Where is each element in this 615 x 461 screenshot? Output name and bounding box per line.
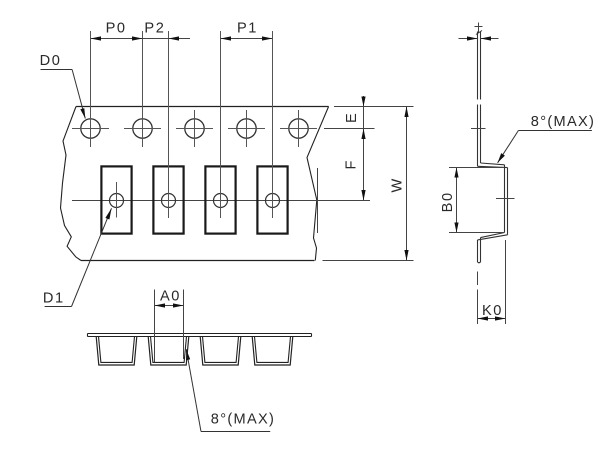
F bottom arrow (pointing down) (361, 190, 365, 201)
partial pocket 5 crosshair at torn edge (317, 168, 319, 233)
dimension P1 line (221, 38, 273, 40)
P1 right arrow (262, 36, 273, 40)
svg-text:F: F (344, 159, 360, 170)
dimension W vertical line (406, 107, 408, 261)
bottom flange (478, 233, 508, 240)
dimension A0 (155, 288, 184, 362)
svg-text:P1: P1 (237, 21, 258, 37)
W bottom arrow (404, 250, 408, 261)
svg-text:K0: K0 (482, 303, 503, 319)
dimension K0 (478, 240, 506, 324)
pocket 2 rect (153, 166, 183, 233)
svg-text:D1: D1 (43, 291, 65, 307)
tape bottom edge (81, 260, 315, 262)
sprocket hole 2 (124, 31, 161, 147)
section pocket 2 (148, 337, 189, 366)
svg-text:E: E (344, 112, 360, 123)
E bottom / F top arrow (pointing up) (361, 129, 365, 140)
sprocket hole 1 (72, 31, 109, 147)
svg-text:B0: B0 (440, 191, 456, 212)
thickness dimension arrows (459, 36, 499, 40)
pocket row center line (72, 200, 370, 202)
svg-text:P0: P0 (106, 21, 127, 37)
tape wall top (above break) (476, 31, 482, 100)
P0 left arrow (91, 36, 102, 40)
E top arrow (outside, pointing down) (361, 97, 365, 107)
pocket 1 rect (101, 166, 131, 233)
dimension P0/P2 line (91, 38, 191, 40)
bottom edge extension line (323, 260, 414, 262)
svg-text:P2: P2 (144, 21, 165, 37)
pocket wall (505, 165, 508, 235)
svg-text:D0: D0 (40, 53, 62, 69)
svg-text:W: W (390, 177, 406, 192)
bar left cap (87, 334, 89, 337)
left torn edge (61, 107, 82, 261)
section pocket 4 (252, 337, 293, 366)
svg-text:8°(MAX): 8°(MAX) (211, 412, 275, 428)
tape wall bottom (478, 238, 481, 263)
bar right cap (311, 334, 313, 337)
svg-text:A0: A0 (160, 288, 181, 304)
tape bar top line (88, 333, 312, 335)
pocket 2 center ext line (168, 31, 170, 218)
label 8 deg MAX (bottom) (186, 349, 275, 431)
sprocket hole 4 (228, 110, 265, 147)
dimension B0 (440, 168, 504, 233)
tape top edge (76, 106, 329, 108)
pocket 3 center ext line (220, 31, 222, 218)
tape bar bottom line (88, 336, 312, 338)
label 8 deg MAX (right) (498, 114, 596, 163)
section pocket 1 (96, 337, 137, 366)
sprocket level tick (471, 128, 486, 130)
section pocket 3 (200, 337, 241, 366)
P1 left arrow (221, 36, 232, 40)
svg-text:8°(MAX): 8°(MAX) (531, 114, 595, 130)
sprocket hole 5 (280, 110, 317, 147)
pocket 4 rect (257, 166, 287, 233)
dimension E/F vertical line (363, 96, 365, 201)
W top arrow (404, 107, 408, 118)
P0 right arrow (132, 36, 143, 40)
pocket 3 rect (205, 166, 235, 233)
sprocket level extension line (324, 128, 375, 130)
sprocket hole 3 (176, 110, 213, 147)
P2 right arrow (169, 36, 180, 40)
top centerline cross (475, 23, 483, 34)
top flange (478, 163, 508, 168)
pocket center tick (496, 198, 515, 200)
tape wall below break (478, 105, 481, 167)
pocket 4 center ext line (272, 31, 274, 218)
right torn edge (307, 107, 329, 261)
top edge extension line (334, 106, 414, 108)
